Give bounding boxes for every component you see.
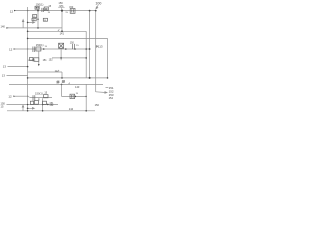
wire block1 vertical x=38 — [37, 9, 39, 28]
svg-text:150: 150 — [70, 41, 75, 44]
junction dot bus 38.4 — [27, 38, 29, 40]
svg-text:150: 150 — [69, 6, 74, 9]
svg-text:15: 15 — [65, 12, 68, 14]
junction dot (95.7,10.6) — [95, 10, 97, 12]
node label 121 arrow — [14, 10, 16, 12]
svg-text:143: 143 — [75, 85, 80, 89]
label box block2 mid — [34, 58, 39, 62]
LED D1 (box with X) — [59, 43, 64, 48]
junction dot (41.5,104.6) — [42, 104, 43, 105]
ref tick H11 — [68, 83, 69, 85]
svg-text:152: 152 — [49, 104, 54, 107]
junction dot (75,49) — [74, 48, 76, 50]
junction dot (89.6,49) — [89, 48, 91, 50]
wire vertical x=107.5 — [107, 38, 109, 78]
leader dash top label — [106, 86, 109, 88]
node label 122 arrow — [14, 48, 16, 50]
junction dot (38,27.9) — [37, 27, 39, 29]
wire H3 — [28, 30, 87, 32]
junction dot bus 104.6 — [27, 104, 28, 105]
svg-text:150(1): 150(1) — [36, 43, 44, 47]
wire H4 — [28, 37, 108, 39]
wire H1 (row1 gate line) — [15, 10, 96, 12]
junction dot (107.5,77.9) — [107, 77, 109, 79]
junction dot bus 22.4 — [27, 22, 29, 24]
svg-text:13: 13 — [2, 73, 6, 77]
wire vertical x=86.2 (lower) — [85, 84, 87, 110]
junction dot bus 96.3 — [27, 96, 28, 97]
wire connector row1 (bus to block arrow) — [28, 22, 35, 24]
junction dot (86.2,96.4) — [85, 96, 87, 98]
label box3 block3 — [43, 101, 47, 104]
arrow H2 start — [6, 27, 8, 29]
ref tick H3 — [58, 29, 60, 31]
svg-text:15: 15 — [76, 45, 79, 47]
junction dot bus 31.3 — [27, 31, 29, 33]
wire H2 (row1 lower line) — [8, 27, 62, 29]
wire block2 vertical x=38.6 — [38, 51, 40, 65]
junction dot bus 77.9 — [27, 77, 29, 79]
junction dot (62,31.3) — [61, 30, 63, 32]
transistor T2 block1 box C — [44, 7, 48, 10]
wire vertical x=86.2 (upper) — [85, 31, 87, 78]
junction dot (62,77.9) — [61, 77, 63, 79]
svg-text:141: 141 — [60, 32, 65, 36]
capacitor C4 box1 block3 — [30, 101, 33, 104]
svg-text:113: 113 — [98, 45, 103, 49]
wire H8 (y=72) — [28, 71, 62, 73]
junction dot bus 49 — [27, 48, 28, 49]
junction dot (48.9,104.6) — [47, 104, 49, 106]
transistor T5 block3 bars — [32, 95, 34, 101]
svg-text:15: 15 — [62, 81, 65, 84]
junction dot (61.5,84.4) — [61, 84, 63, 86]
callout 100 arrow — [96, 5, 98, 9]
svg-text:140: 140 — [1, 25, 6, 29]
junction dot (89.6,77.9) — [89, 77, 91, 79]
junction dot (62.2,57.9) — [60, 57, 62, 59]
wire H12 (row3 gate leader) — [14, 95, 27, 97]
transistor T3 block2 box — [36, 47, 41, 51]
transistor T3 block2 bars — [32, 47, 34, 53]
transistor gate bar block3 — [38, 98, 40, 100]
svg-text:144: 144 — [69, 107, 74, 111]
svg-text:15: 15 — [57, 81, 60, 84]
wire row3 gate line — [28, 96, 30, 97]
capacitor Cst row1 (box on H1) — [70, 9, 75, 14]
svg-text:13: 13 — [3, 64, 7, 68]
junction dot (86.2,110.8) — [85, 110, 87, 112]
arrow up row1 (x=23.1) — [22, 20, 24, 28]
svg-text:154: 154 — [109, 96, 114, 100]
wire H13 (y=104.6) — [7, 104, 59, 106]
wire H7 (y=66.6) — [8, 66, 28, 68]
junction dot (38,19.2) — [37, 19, 38, 20]
wire LED drop x=62.2 — [60, 48, 62, 60]
capacitor C1 box1 block1 — [33, 15, 37, 18]
svg-text:150(1): 150(1) — [36, 2, 44, 6]
junction dot bus 66.6 — [27, 66, 29, 68]
junction dot (43.7,49) — [43, 48, 45, 50]
junction dot (62,10.6) — [61, 10, 63, 12]
svg-text:150(1): 150(1) — [35, 91, 43, 95]
svg-text:15: 15 — [76, 93, 79, 95]
wire H9 leader (y=75.4) — [7, 74, 28, 76]
wire H11 (y=84.4) — [9, 83, 103, 85]
wire H10 (y=77.9 full) — [28, 77, 108, 79]
junction dot (86.2,49) — [85, 48, 87, 50]
junction dot bus 110.8 — [27, 110, 29, 112]
svg-text:15: 15 — [45, 46, 48, 48]
junction dot (75.3,96.4) — [75, 96, 77, 98]
junction dot bus 108.3 — [27, 108, 29, 110]
ref tick H8 — [58, 70, 59, 72]
node label 123 arrow — [13, 95, 15, 97]
svg-text:15: 15 — [44, 92, 47, 95]
wire vertical x=61.5 row3 — [61, 84, 63, 96]
junction dot (89.6,10.6) — [89, 10, 91, 12]
svg-text:12: 12 — [9, 48, 13, 52]
transistor T6 block3 box — [44, 95, 49, 98]
wire connector row2 (bus to block arrow) — [28, 59, 35, 61]
wire connector row3 (bus to block arrow) — [28, 108, 35, 110]
wire vertical x=62 row2 band — [61, 72, 63, 78]
capacitor Cst row3 (box on connector) — [70, 94, 75, 98]
transistor T2 block1 bars — [41, 8, 43, 12]
arrow up row3 (x=23) — [22, 105, 24, 111]
junction dot (65.8,49) — [65, 48, 67, 50]
svg-text:100: 100 — [95, 2, 101, 6]
wire bus VL1 (left vertical bus) — [27, 7, 29, 111]
wire H14 (y=110.8 bottom) — [7, 110, 95, 112]
leader fan bottom right — [96, 92, 107, 94]
wire H6 (row2 lower) — [52, 57, 86, 59]
wire vertical x=62 row1 — [61, 11, 63, 32]
capacitor C2 box block2 left — [30, 58, 34, 61]
junction dot bus 10.6 — [27, 10, 28, 11]
mid-right label arrow — [96, 45, 98, 47]
wire row3 right connector (y=96.4) — [62, 95, 87, 97]
svg-text:15: 15 — [48, 5, 51, 8]
label box2 block3 — [34, 101, 38, 105]
transistor T1 block1 component A — [35, 6, 39, 9]
junction dot (41.5,110.8) — [42, 110, 44, 112]
svg-text:12: 12 — [8, 94, 12, 98]
junction dot (38,10.6) — [37, 10, 39, 12]
wire VDL (vertical x=95.7) — [95, 11, 97, 92]
svg-text:151: 151 — [43, 59, 48, 62]
wire H5 (row2 gate line) — [15, 48, 90, 50]
label box3 block1 — [43, 18, 47, 21]
svg-text:152: 152 — [49, 58, 54, 61]
svg-text:12: 12 — [10, 9, 14, 13]
wire DL (vertical x=89.6) — [89, 11, 91, 78]
wire block3 vertical x=41.5 — [42, 98, 44, 111]
junction dot (86.2,57.9) — [85, 57, 87, 59]
junction arrow blob (38.6,65.4) — [38, 64, 40, 66]
capacitor C3 row2 bars — [72, 44, 74, 49]
label box2 block1 — [32, 18, 36, 21]
svg-text:15: 15 — [48, 12, 51, 14]
svg-text:150: 150 — [95, 103, 100, 107]
